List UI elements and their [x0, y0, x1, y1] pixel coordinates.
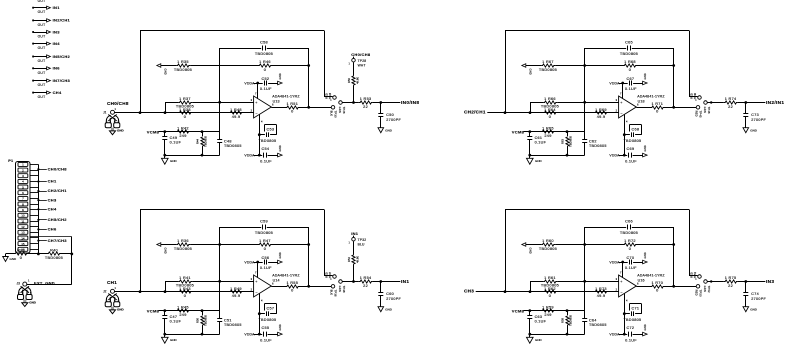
svg-text:VCM8: VCM8: [512, 129, 525, 134]
svg-text:49.9: 49.9: [597, 294, 606, 298]
svg-text:−: −: [255, 290, 257, 294]
wire VCM line: [524, 310, 585, 312]
svg-text:2700PF: 2700PF: [386, 118, 401, 122]
svg-text:1 R36: 1 R36: [177, 239, 189, 243]
svg-text:J3: J3: [17, 281, 21, 285]
junction VCM / R44 top: [201, 130, 204, 133]
svg-text:C69: C69: [626, 147, 634, 151]
svg-text:IN1: IN1: [401, 279, 409, 285]
capacitor C59 TBD0805: [220, 219, 309, 235]
svg-text:GRN: GRN: [338, 107, 342, 113]
wire op-amp supply pin 7: [257, 83, 259, 99]
wire / net label CH1: [37, 179, 57, 184]
wire bottom ground rail: [165, 334, 220, 336]
svg-text:−: −: [255, 111, 257, 115]
svg-text:VCM8: VCM8: [147, 308, 160, 313]
capacitor C49 0.1UF: [162, 132, 181, 156]
capacitor C57 TBD0805 (feedback loop): [258, 304, 276, 323]
wire outer feedback right vertical: [324, 210, 333, 276]
svg-text:49.9K: 49.9K: [356, 256, 360, 263]
svg-text:TBD0805: TBD0805: [203, 135, 207, 147]
svg-text:+: +: [620, 101, 622, 105]
svg-text:IN2/CH1: IN2/CH1: [53, 18, 71, 23]
junction feedback node: [307, 64, 310, 67]
svg-text:R39: R39: [17, 249, 25, 253]
svg-text:CH2/CH1: CH2/CH1: [464, 109, 486, 114]
wire outer feedback right vertical: [324, 31, 333, 97]
capacitor C60 2700PF: [378, 282, 401, 307]
svg-text:1 R71: 1 R71: [651, 102, 663, 106]
svg-text:1 R38: 1 R38: [179, 108, 191, 112]
svg-text:GND: GND: [278, 145, 282, 151]
svg-text:1 R59: 1 R59: [542, 305, 554, 309]
wire outer feedback left vertical: [140, 210, 142, 292]
net port GND left arrow: [522, 64, 533, 75]
resistor R44 TBD0805 (vertical): [196, 132, 208, 156]
svg-text:C59: C59: [260, 219, 268, 223]
capacitor C68 TBD0805 (feedback loop): [623, 125, 641, 144]
svg-text:IN4: IN4: [53, 41, 61, 46]
svg-text:CH5/CH2: CH5/CH2: [48, 217, 68, 222]
capacitor C71 TBD0805 (feedback loop): [623, 304, 641, 323]
svg-text:0.1UF: 0.1UF: [260, 87, 272, 91]
svg-text:1 R62: 1 R62: [544, 287, 556, 291]
wire branch up to upper resistor line: [165, 102, 167, 112]
resistor R67 TBD0805: [526, 60, 623, 72]
junction at R-upper branch: [164, 111, 167, 114]
wire main input net: [476, 291, 619, 293]
svg-text:TBD0805: TBD0805: [620, 52, 638, 56]
junction inner vertical / feedback resistor line: [583, 243, 586, 246]
net label VCM8: [512, 308, 525, 313]
svg-text:OUT: OUT: [38, 46, 46, 50]
svg-text:CH3: CH3: [48, 197, 57, 202]
capacitor C65 TBD0805: [585, 40, 674, 56]
svg-text:1 R43: 1 R43: [179, 287, 191, 291]
svg-text:TBD0805: TBD0805: [589, 323, 607, 327]
svg-text:0.1UF: 0.1UF: [625, 266, 637, 270]
junction pin7 / VDDA line: [256, 82, 259, 85]
svg-text:1 R55: 1 R55: [286, 281, 298, 285]
svg-text:IN5/CH2: IN5/CH2: [53, 54, 71, 59]
svg-text:15: 15: [21, 242, 25, 246]
ground under output cap: [378, 128, 393, 133]
svg-text:R63: R63: [561, 139, 565, 144]
wire inner box left vertical: [219, 227, 221, 319]
resistor R41 TBD0805: [165, 276, 254, 288]
wire / net label CH4: [37, 207, 57, 212]
svg-text:0: 0: [549, 294, 551, 298]
svg-text:R44: R44: [196, 139, 200, 144]
svg-text:GND: GND: [278, 73, 282, 79]
svg-text:RED: RED: [695, 111, 699, 117]
capacitor C64 TBD0805: [582, 318, 606, 334]
svg-text:C63: C63: [535, 315, 543, 319]
net label VCM8: [512, 129, 525, 134]
svg-text:0: 0: [656, 289, 658, 293]
svg-text:BLK: BLK: [330, 290, 334, 296]
resistor R49 49.9: [229, 287, 243, 298]
svg-text:OUT: OUT: [38, 0, 46, 3]
port OUT IN0: [32, 0, 60, 3]
capacitor C72 0.1UF (VDDA decoupling bottom): [609, 324, 647, 342]
svg-text:12: 12: [21, 225, 25, 229]
svg-text:1 R35: 1 R35: [177, 60, 189, 64]
junction at feedback vertical: [139, 290, 142, 293]
capacitor C55 0.1UF (VDDA decoupling bottom): [244, 324, 282, 342]
test point TP38 (GRN): [338, 280, 346, 293]
wire inner box right vertical: [308, 227, 310, 286]
svg-text:C70: C70: [626, 256, 634, 260]
resistor R48 49.9: [229, 108, 243, 119]
svg-text:J1: J1: [103, 111, 107, 115]
svg-text:−: −: [620, 290, 622, 294]
test point TP32 (BLU) with label IN1: [348, 231, 366, 246]
resistor R52 49.9K (vertical): [347, 241, 359, 281]
resistor R51 0 (output series): [271, 102, 331, 114]
svg-text:TBD0805: TBD0805: [255, 231, 273, 235]
svg-text:C47: C47: [170, 315, 178, 319]
ground under VCM rail: [527, 155, 543, 164]
resistor R39 0: [6, 249, 39, 261]
svg-text:13: 13: [21, 231, 25, 235]
test point TP36 (BLK): [330, 285, 338, 297]
ground at R39 row: [3, 254, 17, 262]
wire main input net: [115, 291, 254, 293]
resistor R43 0: [178, 287, 192, 298]
svg-text:CH6: CH6: [48, 227, 57, 232]
op-amp U18 ADA4841-1YRZ: [616, 91, 666, 123]
junction pin4 / VDDA bottom line: [258, 154, 261, 157]
port OUT IN4: [32, 41, 60, 50]
svg-text:0.1UF: 0.1UF: [260, 266, 272, 270]
svg-text:0: 0: [20, 256, 22, 260]
resistor R61 TBD0805: [530, 276, 619, 288]
svg-text:0.1UF: 0.1UF: [535, 141, 547, 145]
resistor R53 22: [342, 97, 400, 109]
svg-text:GND: GND: [385, 307, 393, 311]
test point TP50 (RED): [695, 285, 703, 297]
svg-text:GND: GND: [643, 324, 647, 330]
svg-text:RED: RED: [689, 93, 693, 99]
ground under VCM rail: [162, 155, 178, 164]
SMA connector J2 (CH1): [103, 280, 125, 314]
wire branch up to upper resistor line: [165, 281, 167, 291]
junction pin4 / C53 loop: [623, 312, 626, 315]
test point TP26 (GRN): [338, 101, 346, 114]
resistor R75 22: [707, 276, 765, 288]
wire outer feedback top: [140, 30, 324, 32]
svg-text:OUT: OUT: [38, 95, 46, 99]
svg-text:1 R49: 1 R49: [230, 287, 242, 291]
connector P1: [8, 159, 30, 253]
svg-text:OUT: OUT: [38, 83, 46, 87]
svg-text:GND: GND: [535, 159, 543, 163]
svg-text:0: 0: [184, 115, 186, 119]
svg-text:TBD0805: TBD0805: [224, 144, 242, 148]
svg-text:GND: GND: [278, 252, 282, 258]
wire op-amp supply pin 4: [624, 115, 626, 156]
junction feedback node: [307, 243, 310, 246]
svg-text:0.1UF: 0.1UF: [625, 160, 637, 164]
svg-text:2700PF: 2700PF: [751, 297, 766, 301]
port OUT IN5/CH2: [32, 54, 70, 63]
resistor R72 0: [623, 239, 674, 251]
wire outer feedback top: [140, 209, 324, 211]
junction inner vertical / upper line: [218, 101, 221, 104]
wires P1 pin stubs: [30, 165, 38, 250]
svg-text:C51: C51: [224, 318, 232, 322]
junction at R-upper branch: [529, 290, 532, 293]
junction feedback node: [672, 64, 675, 67]
op-amp U16 ADA4841-1YRZ: [616, 270, 666, 302]
capacitor C52 0.1UF (VDDA decoupling top): [244, 73, 282, 91]
junction pin4 / VDDA bottom line: [623, 333, 626, 336]
wire P1 to EXT_GND loop: [30, 237, 72, 285]
junction pin7 / VDDA line: [621, 261, 624, 264]
net label VCM8: [147, 308, 160, 313]
svg-text:GND: GND: [29, 300, 37, 304]
svg-text:BLK: BLK: [330, 111, 334, 117]
svg-text:C74: C74: [751, 292, 759, 296]
resistor R40 TBD0805: [38, 249, 71, 261]
svg-text:C49: C49: [170, 136, 178, 140]
svg-text:GND: GND: [117, 308, 125, 312]
svg-text:C72: C72: [626, 326, 634, 330]
junction VCM / C49 branch: [163, 309, 166, 312]
svg-text:0.1UF: 0.1UF: [625, 339, 637, 343]
svg-text:TBD0805: TBD0805: [255, 52, 273, 56]
svg-text:1 R60: 1 R60: [542, 239, 554, 243]
port OUT CH4: [32, 90, 62, 99]
svg-text:TP36: TP36: [334, 290, 338, 297]
capacitor C62 TBD0805: [582, 139, 606, 155]
capacitor C51 TBD0805: [217, 318, 241, 334]
junction TP vertical / output line: [352, 101, 355, 104]
junction VCM / R44 top: [566, 309, 569, 312]
svg-text:1 R74: 1 R74: [725, 97, 737, 101]
svg-text:CH7/CH3: CH7/CH3: [48, 238, 68, 243]
svg-text:C55: C55: [261, 326, 269, 330]
svg-text:TP28: TP28: [358, 59, 367, 63]
resistor R35 TBD0805: [161, 60, 258, 72]
ground under output cap: [743, 307, 758, 312]
junction rail / R44: [201, 154, 204, 157]
svg-text:GND: GND: [750, 307, 758, 311]
junction pin7 / VDDA line: [621, 82, 624, 85]
svg-text:1 R66: 1 R66: [544, 97, 556, 101]
svg-text:GND: GND: [163, 248, 167, 254]
svg-text:OUT: OUT: [38, 23, 46, 27]
resistor R70 0 (output series): [636, 281, 696, 293]
wire / net label CH5/CH2: [37, 217, 67, 222]
junction pin4 / C53 loop: [258, 312, 261, 315]
svg-text:CH1: CH1: [107, 280, 117, 285]
svg-text:0.1UF: 0.1UF: [625, 87, 637, 91]
svg-text:CH4: CH4: [48, 207, 57, 212]
svg-text:VCM8: VCM8: [512, 308, 525, 313]
net label CH2/CH1: [464, 109, 486, 114]
wire branch up to upper resistor line: [530, 102, 532, 112]
svg-text:TBD0805: TBD0805: [45, 256, 63, 260]
svg-text:GND: GND: [643, 252, 647, 258]
resistor R62 0: [543, 287, 557, 298]
junction pin4 / C53 loop: [258, 133, 261, 136]
svg-text:TP50: TP50: [699, 290, 703, 297]
svg-text:TBD0805: TBD0805: [224, 323, 242, 327]
svg-text:1 R54: 1 R54: [360, 276, 372, 280]
resistor R63 TBD0805 (vertical): [561, 132, 573, 156]
svg-text:0.1UF: 0.1UF: [535, 320, 547, 324]
svg-text:P1: P1: [8, 159, 13, 163]
net port GND left arrow: [157, 64, 168, 75]
svg-text:CH0/CH8: CH0/CH8: [107, 101, 129, 106]
svg-text:GND: GND: [528, 248, 532, 254]
capacitor C66 TBD0805: [585, 219, 674, 235]
svg-text:C73: C73: [751, 113, 759, 117]
test point TP51 (RED): [689, 271, 701, 280]
svg-text:−: −: [620, 111, 622, 115]
svg-text:14: 14: [21, 236, 25, 240]
svg-text:1 R42: 1 R42: [177, 126, 189, 130]
svg-text:GND: GND: [10, 257, 18, 261]
junction at feedback vertical: [504, 111, 507, 114]
svg-text:C71: C71: [631, 306, 639, 310]
junction rail / R44: [566, 333, 569, 336]
svg-text:C54: C54: [261, 147, 269, 151]
svg-text:GND: GND: [643, 145, 647, 151]
svg-text:11: 11: [21, 219, 24, 223]
svg-text:CH0/CH8: CH0/CH8: [48, 166, 68, 171]
svg-text:CH1: CH1: [48, 179, 57, 184]
resistor R64 0: [543, 108, 557, 119]
capacitor C50 2700PF: [378, 103, 401, 128]
wire branch up to upper resistor line: [530, 281, 532, 291]
svg-text:RED: RED: [695, 290, 699, 296]
svg-text:1 R72: 1 R72: [624, 239, 636, 243]
svg-text:IN1: IN1: [53, 5, 61, 10]
port OUT IN3: [32, 29, 60, 38]
wire op-amp supply pin 7: [622, 262, 624, 278]
svg-text:1 R70: 1 R70: [651, 281, 663, 285]
svg-text:IN7/CH3: IN7/CH3: [53, 78, 71, 83]
test point TP28 (WHT) with label CH0/CH8: [348, 52, 370, 67]
svg-text:U18: U18: [638, 99, 645, 103]
wire / net label CH6: [37, 227, 57, 232]
capacitor C61 0.1UF: [527, 132, 546, 156]
capacitor C53 TBD0805 (feedback loop): [258, 125, 276, 144]
junction VCM / C49 branch: [528, 130, 531, 133]
svg-text:ADA4841-1YRZ: ADA4841-1YRZ: [637, 94, 665, 98]
wire outer feedback right vertical: [689, 31, 698, 97]
svg-text:GND: GND: [385, 128, 393, 132]
junction inner vertical / upper line: [583, 280, 586, 283]
test point TP45 (RED): [695, 106, 703, 118]
wire inner box left vertical: [584, 48, 586, 140]
junction bus bottom: [37, 253, 40, 256]
svg-text:GND: GND: [278, 324, 282, 330]
capacitor C56 0.1UF (VDDA decoupling top): [244, 252, 282, 270]
svg-text:OUT: OUT: [38, 10, 46, 14]
wire outer feedback left vertical: [505, 31, 507, 113]
svg-text:IN2/IN1: IN2/IN1: [766, 100, 784, 106]
net label IN3: [766, 279, 774, 285]
svg-text:1 R64: 1 R64: [544, 108, 556, 112]
wire bottom ground rail: [530, 155, 585, 157]
svg-text:C58: C58: [260, 40, 268, 44]
svg-text:22: 22: [363, 105, 368, 109]
SMA connector J1 (CH0/CH8): [103, 101, 129, 135]
junction feedback node: [672, 243, 675, 246]
svg-text:IN6: IN6: [53, 66, 61, 71]
junction rail / C49: [528, 154, 531, 157]
wire outer feedback top: [505, 209, 689, 211]
net port GND left arrow: [157, 243, 168, 254]
ground under output cap: [743, 128, 758, 133]
svg-text:C50: C50: [386, 113, 394, 117]
svg-text:10: 10: [21, 214, 25, 218]
svg-text:CH0/CH8: CH0/CH8: [351, 52, 371, 57]
junction test point stub on output line: [710, 280, 712, 282]
junction output cap node: [379, 280, 382, 283]
svg-text:U13: U13: [273, 99, 280, 103]
capacitor C70 0.1UF (VDDA decoupling top): [609, 252, 647, 270]
resistor R74 22: [707, 97, 765, 109]
test point TP40 (RED): [689, 92, 701, 101]
op-amp U13 ADA4841-1YRZ: [251, 91, 301, 123]
wire bottom ground rail: [165, 155, 220, 157]
junction VCM / C49 branch: [528, 309, 531, 312]
svg-text:TP38: TP38: [342, 286, 346, 293]
junction output / inner box right vertical: [307, 106, 310, 109]
svg-text:CH2/CH1: CH2/CH1: [48, 188, 68, 193]
svg-text:TBD0805: TBD0805: [568, 135, 572, 147]
svg-text:C65: C65: [625, 40, 633, 44]
svg-text:0: 0: [291, 289, 293, 293]
wire op-amp supply pin 4: [624, 294, 626, 335]
svg-text:TBD0805: TBD0805: [539, 247, 557, 251]
capacitor C54 0.1UF (VDDA decoupling bottom): [244, 145, 282, 163]
junction inner vertical / feedback resistor line: [218, 243, 221, 246]
ground under output cap: [378, 307, 393, 312]
svg-text:ADA4841-1YRZ: ADA4841-1YRZ: [637, 273, 665, 277]
resistor R71 0 (output series): [636, 102, 696, 114]
svg-text:1 R47: 1 R47: [259, 239, 271, 243]
test point TP46 (GRN): [703, 101, 711, 114]
svg-text:0: 0: [264, 68, 266, 72]
resistor R58 TBD0805 (vertical): [561, 311, 573, 335]
resistor R60 TBD0805: [526, 239, 623, 251]
svg-text:0: 0: [184, 294, 186, 298]
svg-text:TBD0805: TBD0805: [568, 314, 572, 326]
svg-text:249: 249: [179, 134, 186, 138]
capacitor C73 2700PF: [743, 103, 766, 128]
svg-text:TP32: TP32: [358, 238, 367, 242]
test point TP30 (BLK): [330, 106, 338, 118]
svg-text:TBD0805: TBD0805: [623, 318, 641, 322]
resistor R69 49.9: [594, 108, 608, 119]
svg-text:GND: GND: [535, 338, 543, 342]
test point TP52 (GRN): [703, 280, 711, 293]
net label IN2/IN1: [766, 100, 784, 106]
wire outer feedback right vertical: [689, 210, 698, 276]
svg-text:TBD0805: TBD0805: [539, 68, 557, 72]
resistor R66 TBD0805: [530, 97, 619, 109]
svg-text:OUT: OUT: [38, 35, 46, 39]
svg-text:1 R61: 1 R61: [544, 276, 556, 280]
capacitor C67 0.1UF (VDDA decoupling top): [609, 73, 647, 91]
junction TP vertical / output line: [352, 280, 355, 283]
